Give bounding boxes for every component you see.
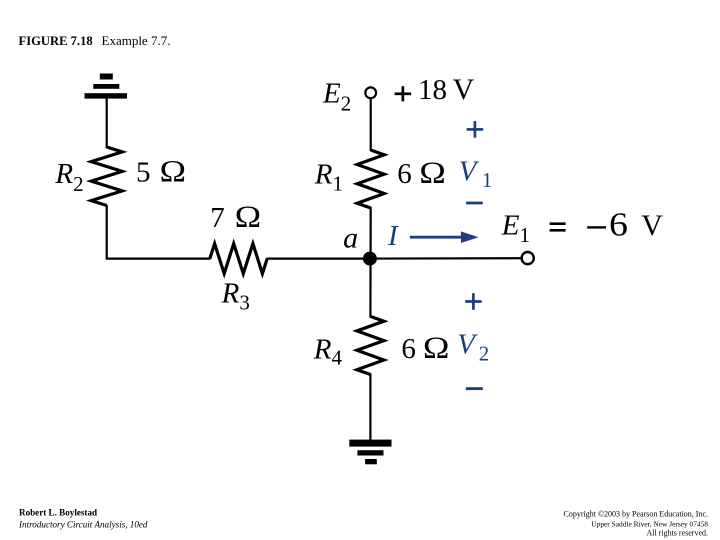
svg-text:I: I (387, 220, 399, 252)
label E2 (322, 78, 351, 116)
node a (363, 252, 377, 266)
footer author (18, 508, 148, 530)
wire R1 through node to R4 (369, 207, 372, 317)
svg-text:Ω: Ω (419, 156, 446, 190)
wire E2 to R1 (370, 99, 372, 151)
svg-text:V1: V1 (459, 156, 493, 192)
svg-text:V2: V2 (457, 329, 489, 366)
label V1 (459, 156, 493, 192)
svg-text:V: V (453, 73, 475, 106)
svg-text:Introductory Circuit Analysis,: Introductory Circuit Analysis, 10ed (18, 520, 148, 530)
label current I (387, 220, 399, 252)
wire R3 to node a (267, 258, 370, 260)
wire R4 to ground (369, 374, 371, 441)
value 6 ohm (R4) (401, 331, 449, 365)
label R2 (54, 158, 83, 196)
label R1 (314, 159, 343, 196)
plus sign V2 (465, 293, 482, 310)
svg-text:FIGURE 7.18: FIGURE 7.18 (19, 34, 93, 48)
equals sign (550, 222, 566, 231)
minus sign V1 (466, 202, 483, 205)
svg-text:V: V (641, 209, 663, 242)
svg-text:Copyright ©2003 by Pearson Edu: Copyright ©2003 by Pearson Education, In… (564, 510, 709, 519)
wire R2 to R3 (corner) (107, 205, 211, 259)
label node a (343, 222, 358, 255)
value 7 ohm (210, 200, 261, 234)
wire ground-top to R2 (106, 98, 108, 148)
svg-text:5: 5 (136, 157, 151, 189)
svg-text:E2: E2 (322, 78, 351, 116)
svg-text:Upper Saddle River, New Jersey: Upper Saddle River, New Jersey 07458 (591, 520, 708, 529)
svg-text:7: 7 (210, 202, 225, 234)
figure caption (19, 33, 171, 48)
minus six volts (587, 206, 663, 243)
svg-text:Robert L. Boylestad: Robert L. Boylestad (19, 508, 97, 518)
resistor R3 (210, 244, 267, 274)
value +18 V plus sign (395, 86, 412, 101)
svg-text:All rights reserved.: All rights reserved. (646, 528, 708, 537)
terminal E2 (365, 87, 376, 98)
resistor R1 (357, 150, 384, 208)
ground (bottom) (349, 440, 391, 465)
svg-text:Example 7.7.: Example 7.7. (102, 33, 171, 48)
resistor R2 (91, 147, 122, 206)
value 18 V (418, 73, 475, 106)
plus sign V1 (467, 121, 484, 138)
svg-text:Ω: Ω (423, 331, 450, 365)
label E1 (501, 209, 530, 247)
svg-text:R2: R2 (54, 158, 83, 196)
svg-text:R4: R4 (313, 333, 343, 369)
label V2 (457, 329, 489, 366)
label R3 (221, 278, 250, 315)
svg-text:6: 6 (401, 333, 416, 365)
footer copyright (564, 510, 709, 538)
value 6 ohm (R1) (397, 156, 446, 190)
current arrow (410, 231, 479, 243)
svg-text:Ω: Ω (234, 200, 261, 234)
minus sign V2 (466, 387, 483, 390)
svg-text:R1: R1 (314, 159, 343, 196)
label R4 (313, 333, 343, 369)
resistor R4 (357, 316, 384, 374)
svg-text:6: 6 (397, 158, 412, 190)
svg-text:a: a (343, 222, 358, 255)
svg-text:E1: E1 (501, 209, 530, 247)
svg-text:6: 6 (609, 206, 628, 243)
terminal E1 (522, 252, 534, 264)
wire node a to E1 (370, 257, 521, 260)
svg-text:R3: R3 (221, 278, 250, 315)
svg-text:Ω: Ω (159, 155, 186, 189)
svg-text:18: 18 (418, 74, 447, 106)
value 5 ohm (136, 155, 186, 189)
ground (top, inverted) (85, 74, 128, 99)
